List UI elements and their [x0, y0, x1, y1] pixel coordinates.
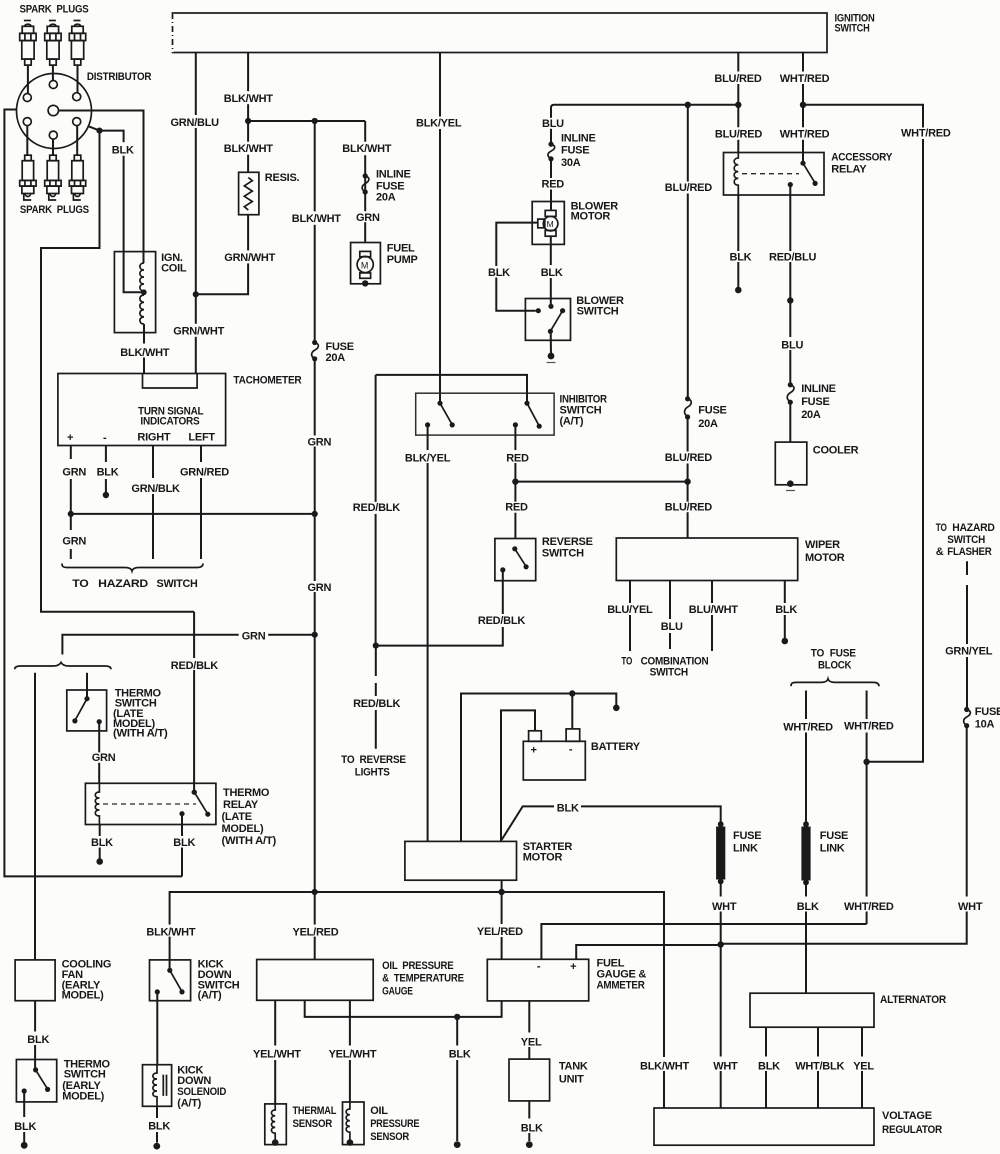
svg-text:REGULATOR: REGULATOR — [882, 1124, 942, 1136]
wire gauge common to fuel gauge (y=1017 link) — [305, 1000, 502, 1017]
wire battery + to starter motor — [501, 710, 535, 841]
wire inhibitor top feed from RED/BLK riser — [376, 375, 527, 403]
fuse FUSE 10A — [964, 706, 1000, 731]
wire YEL/RED bus junction to fuel gauge — [501, 892, 503, 959]
svg-text:+: + — [67, 432, 73, 444]
reverse switch contacts and arm — [512, 546, 517, 551]
wire BLK/WHT distribution bus y=121 — [248, 120, 365, 122]
svg-text:BLK: BLK — [148, 1121, 170, 1133]
tachometer input notch — [143, 374, 198, 389]
wire BLU/YEL wiper output — [629, 581, 631, 652]
svg-text:GAUGE: GAUGE — [382, 985, 413, 997]
accessory relay dashed actuation link — [742, 173, 799, 175]
thermo relay box — [85, 783, 216, 824]
wire fuel gauge + to WHT bus (bus y=945) — [576, 945, 718, 959]
spark plug P3 (top row) — [69, 21, 85, 66]
svg-text:+: + — [570, 961, 576, 973]
svg-text:WHT/RED: WHT/RED — [844, 901, 894, 913]
svg-text:BLK/WHT: BLK/WHT — [224, 93, 273, 105]
svg-text:BLK: BLK — [541, 267, 563, 279]
wire BLK solenoid to terminal — [156, 1106, 158, 1142]
wire WHT/BLK alternator to regulator — [817, 1027, 819, 1108]
fuel gauge & ammeter box — [487, 959, 588, 1001]
svg-text:YEL/RED: YEL/RED — [293, 927, 339, 939]
svg-text:PRESSURE: PRESSURE — [370, 1118, 419, 1130]
svg-text:BATTERY: BATTERY — [591, 741, 641, 753]
wire BLK (- output) — [105, 446, 107, 496]
svg-text:BLK/WHT: BLK/WHT — [224, 143, 273, 155]
svg-text:GRN: GRN — [92, 752, 116, 764]
svg-text:-: - — [103, 432, 107, 444]
wire RED inhibitor output down — [514, 425, 516, 539]
wire RED fuse to blower motor — [550, 159, 552, 211]
kick down switch box — [150, 960, 191, 1001]
wire BLK/YEL inhibitor output to starter motor — [427, 425, 429, 842]
ignition switch box — [173, 13, 828, 53]
reverse switch box — [495, 539, 536, 581]
fuse link (right of pair) — [716, 827, 725, 880]
node thermo relay switch feed dot — [192, 790, 197, 795]
svg-text:GRN/BLU: GRN/BLU — [171, 117, 220, 129]
svg-text:FUSE: FUSE — [326, 341, 354, 353]
svg-text:BLU/RED: BLU/RED — [714, 73, 761, 85]
svg-text:BLK/WHT: BLK/WHT — [146, 927, 195, 939]
node starter bus junction — [498, 889, 504, 895]
node BLK junction at distributor — [96, 128, 102, 134]
svg-text:SWITCH: SWITCH — [64, 1069, 106, 1081]
svg-text:TO: TO — [72, 578, 89, 590]
wire blower switch to ground terminal — [550, 331, 552, 356]
fuse INLINE FUSE 20A (fuel pump) — [362, 169, 410, 204]
svg-text:BLK: BLK — [521, 1123, 543, 1135]
svg-text:10A: 10A — [975, 719, 995, 731]
svg-text:FUSE: FUSE — [820, 830, 848, 842]
node BLU/RED tap junction x=688 — [685, 102, 691, 108]
node GRN bus junction y=513.9 — [312, 511, 318, 517]
svg-text:LEFT: LEFT — [188, 431, 215, 443]
thermo switch (late model) box — [67, 690, 107, 731]
svg-text:BLK: BLK — [91, 837, 113, 849]
wire BLK fuse link to alternator — [805, 884, 807, 993]
svg-text:(LATE: (LATE — [222, 811, 252, 823]
kick down switch contacts and arm — [167, 968, 172, 973]
thermo switch (early model) box — [16, 1060, 56, 1102]
fuse INLINE FUSE 20A (cooler) — [787, 382, 836, 421]
accessory relay coil — [734, 153, 738, 196]
thermo relay actuation dashed link — [103, 803, 196, 805]
wire BLU feed horizontal y=105 — [551, 105, 738, 143]
svg-text:RED/BLK: RED/BLK — [353, 698, 400, 710]
wire WHT/RED brace to lower junction — [866, 691, 868, 762]
thermal sensor box — [265, 1104, 287, 1145]
svg-text:SPARK PLUGS: SPARK PLUGS — [20, 4, 89, 16]
wire GRN/BLU ignition to tachometer (via GRN/WHT junction) — [195, 53, 197, 374]
wire BLK thermo switch (early) to terminal — [23, 1091, 25, 1142]
svg-text:BLK/WHT: BLK/WHT — [292, 213, 341, 225]
ignition coil box — [114, 252, 155, 333]
svg-text:MOTOR: MOTOR — [523, 852, 563, 864]
svg-text:COOLER: COOLER — [813, 444, 859, 456]
node junction at x=248 — [245, 118, 251, 124]
svg-text:FUSE: FUSE — [733, 830, 761, 842]
oil pressure sensor winding — [346, 1102, 350, 1141]
wire BLK blower motor bottom to switch — [550, 236, 552, 306]
node cooler ground terminal — [787, 480, 794, 487]
inhibitor switch right contacts and arm — [524, 401, 529, 406]
brace TO FUSE BLOCK — [791, 679, 879, 686]
svg-text:GRN: GRN — [62, 536, 86, 548]
wire coil bottom BLK/WHT to tachometer — [143, 324, 145, 374]
fuel pump box — [351, 243, 381, 284]
svg-text:BLK: BLK — [557, 803, 579, 815]
node BLU/RED junction — [684, 478, 690, 484]
svg-text:AMMETER: AMMETER — [597, 980, 645, 992]
oil pressure sensor box — [343, 1102, 365, 1145]
svg-text:WHT/RED: WHT/RED — [844, 721, 894, 733]
svg-text:WHT: WHT — [958, 901, 983, 913]
spark plug P4 (bottom row) — [20, 155, 36, 200]
svg-text:GRN: GRN — [62, 467, 86, 479]
wire brace to thermo switch (late) — [86, 673, 88, 699]
battery + terminal post — [529, 731, 542, 742]
wire battery - feed from starter top bus — [461, 694, 616, 842]
svg-text:SENSOR: SENSOR — [293, 1118, 333, 1130]
svg-text:BLK: BLK — [488, 267, 510, 279]
node RED/BLK junction y=645.6 — [373, 643, 379, 649]
wire BLK/WHT branch to inline fuse / fuel pump — [364, 121, 366, 243]
svg-text:PUMP: PUMP — [387, 254, 418, 266]
wire GRN/BLK (RIGHT output) to hazard brace — [152, 446, 154, 560]
wire BLK wiper output — [784, 581, 786, 639]
svg-text:GRN/RED: GRN/RED — [180, 467, 229, 479]
svg-text:BLU: BLU — [661, 621, 683, 633]
svg-text:BLK: BLK — [97, 467, 119, 479]
svg-text:VOLTAGE: VOLTAGE — [882, 1110, 932, 1122]
svg-text:20A: 20A — [801, 409, 821, 421]
fuse FUSE 20A (wiper) — [685, 396, 727, 430]
svg-text:FUSE: FUSE — [830, 648, 856, 660]
resistor RESIS. zigzag — [244, 178, 252, 210]
svg-text:MODEL): MODEL) — [222, 823, 264, 835]
wire WHT/RED ignition down to relay — [802, 53, 804, 164]
cooling fan box — [15, 960, 55, 1001]
svg-text:WHT/RED: WHT/RED — [901, 128, 951, 140]
svg-text:FUSE: FUSE — [698, 405, 726, 417]
svg-text:WHT/BLK: WHT/BLK — [795, 1061, 844, 1073]
svg-text:MODEL): MODEL) — [62, 1090, 104, 1102]
wire BLK starter to fuse link (with diagonal) — [502, 806, 721, 840]
svg-text:30A: 30A — [561, 157, 581, 169]
svg-text:FLASHER: FLASHER — [947, 546, 992, 558]
svg-text:DISTRIBUTOR: DISTRIBUTOR — [87, 71, 152, 83]
svg-text:WHT: WHT — [713, 1061, 738, 1073]
node WHT bus junction — [718, 941, 724, 947]
wire BLK thermo relay switch to far-left ground run — [181, 814, 183, 877]
svg-text:BLK: BLK — [14, 1121, 36, 1133]
wiper motor box — [616, 538, 797, 581]
svg-text:GRN/BLK: GRN/BLK — [131, 483, 180, 495]
spark plug P5 (bottom row) — [45, 155, 61, 200]
svg-text:BLU/RED: BLU/RED — [715, 129, 762, 141]
svg-text:REVERSE: REVERSE — [542, 536, 593, 548]
svg-text:HAZARD: HAZARD — [952, 522, 995, 534]
svg-text:M: M — [361, 260, 368, 270]
svg-text:GRN/WHT: GRN/WHT — [224, 252, 275, 264]
svg-text:RED: RED — [542, 178, 565, 190]
svg-text:WHT/RED: WHT/RED — [780, 129, 830, 141]
svg-text:SPARK PLUGS: SPARK PLUGS — [20, 204, 89, 216]
wire blower motor left lead to blower switch — [496, 223, 538, 311]
svg-text:RED/BLU: RED/BLU — [769, 252, 816, 264]
wire RED/BLU relay switch down to cooler — [789, 185, 791, 383]
wire RED/BLK (ground-run branch) down to thermo relay — [193, 612, 195, 792]
svg-text:INDICATORS: INDICATORS — [140, 416, 199, 428]
svg-text:RED: RED — [506, 452, 529, 464]
node oil pressure sensor ground dot — [347, 1139, 354, 1146]
svg-text:BLU/RED: BLU/RED — [665, 452, 712, 464]
blower motor box — [532, 202, 564, 245]
wire WHT/RED junction down to fuel-gauge bus corner — [866, 762, 868, 924]
svg-text:20A: 20A — [376, 192, 396, 204]
resistor RESIS. box — [239, 172, 259, 214]
node BLK terminal dot — [103, 492, 109, 498]
svg-text:LINK: LINK — [820, 843, 845, 855]
cooler box — [775, 442, 807, 485]
wire distributor to P6 — [76, 126, 78, 156]
wire battery - lead — [571, 694, 573, 729]
wire YEL/WHT gauge to oil pressure sensor — [349, 1000, 351, 1102]
starter motor box — [405, 841, 517, 880]
accessory relay box — [724, 153, 825, 196]
wire P1 to distributor — [27, 65, 29, 93]
fuse FUSE 20A (in-line symbol) — [312, 340, 354, 364]
node BLK terminal dot — [782, 638, 789, 645]
kick down solenoid coil and core — [153, 1065, 157, 1107]
node RED junction — [512, 478, 518, 484]
wire YEL/WHT gauge to thermal sensor — [274, 1000, 276, 1104]
svg-text:FUSE: FUSE — [376, 180, 404, 192]
svg-text:-: - — [569, 744, 573, 756]
wire GRN thermo switch to thermo relay coil — [98, 722, 100, 784]
svg-text:RED: RED — [505, 501, 528, 513]
node RED/BLU connector dot — [787, 297, 793, 303]
svg-text:INLINE: INLINE — [561, 133, 596, 145]
tachometer box — [58, 374, 226, 446]
node fuse link top dot — [718, 821, 724, 827]
thermo switch (early) contacts and arm — [33, 1067, 38, 1072]
svg-text:RED/BLK: RED/BLK — [171, 660, 218, 672]
svg-text:BLK/WHT: BLK/WHT — [120, 347, 169, 359]
wire WHT/RED brace to left fuse link — [805, 691, 807, 823]
wire GRN (+ output) to hazard brace — [70, 446, 72, 560]
svg-text:GRN: GRN — [308, 437, 332, 449]
thermo switch (late) contacts and arm — [84, 696, 89, 701]
battery - terminal post — [566, 729, 580, 741]
wire BLK node to coil tap and down-left long run to y=612 — [100, 131, 142, 293]
accessory relay switch contacts and arm — [800, 161, 805, 166]
wire fuse to cooler — [789, 402, 791, 442]
wire GRN/YEL hazard flasher feed — [966, 561, 968, 708]
svg-text:BLU: BLU — [781, 339, 803, 351]
fuel pump motor M — [357, 251, 373, 278]
svg-text:BLU/WHT: BLU/WHT — [689, 604, 738, 616]
svg-text:HAZARD: HAZARD — [98, 578, 148, 590]
node junction at x=314.7 — [312, 118, 318, 124]
svg-text:YEL/WHT: YEL/WHT — [253, 1048, 301, 1060]
wire BLK junction to terminal — [456, 1017, 458, 1141]
node BLK junction — [454, 1014, 460, 1020]
svg-text:YEL/WHT: YEL/WHT — [329, 1048, 377, 1060]
wire RED/BLK junction to TO REVERSE LIGHTS — [375, 646, 377, 749]
svg-text:FUSE: FUSE — [801, 396, 829, 408]
inhibitor switch left contacts and arm — [437, 401, 442, 406]
blower switch box — [525, 299, 570, 341]
svg-text:GRN: GRN — [308, 582, 332, 594]
wire BLU/RED ignition down — [737, 53, 739, 154]
svg-text:BLK: BLK — [797, 901, 819, 913]
svg-text:BLU/RED: BLU/RED — [665, 182, 712, 194]
kick down solenoid box — [143, 1065, 172, 1107]
svg-text:YEL: YEL — [521, 1036, 542, 1048]
wire fuel gauge - to WHT/RED riser (bus y=924) — [541, 924, 866, 959]
node BLK terminal dot — [153, 1143, 160, 1150]
svg-text:20A: 20A — [698, 418, 718, 430]
svg-text:WIPER: WIPER — [805, 539, 840, 551]
node BLK terminal dot — [735, 287, 742, 294]
blower switch contacts and arm — [536, 308, 541, 313]
svg-text:FUSE: FUSE — [975, 706, 1000, 718]
svg-text:& TEMPERATURE: & TEMPERATURE — [382, 972, 464, 984]
svg-text:(WITH A/T): (WITH A/T) — [113, 728, 168, 740]
node thermal sensor ground dot — [272, 1139, 279, 1146]
distributor terminal circles — [23, 81, 80, 140]
svg-text:RIGHT: RIGHT — [137, 431, 171, 443]
svg-text:INLINE: INLINE — [801, 383, 836, 395]
svg-text:MOTOR: MOTOR — [805, 552, 845, 564]
tank unit box — [509, 1059, 550, 1101]
node BLK terminal dot — [21, 1142, 28, 1149]
blower motor M — [538, 210, 558, 236]
wire GRN horizontal y=634.7 to left brace — [62, 635, 314, 655]
node GRN/WHT junction — [193, 291, 199, 297]
svg-text:+: + — [531, 745, 537, 757]
wire YEL fuel gauge to tank unit — [528, 1001, 530, 1059]
svg-text:BLK/WHT: BLK/WHT — [640, 1061, 689, 1073]
svg-text:BLK: BLK — [27, 1034, 49, 1046]
wire distributor to P4 — [26, 126, 28, 156]
svg-text:LINK: LINK — [733, 843, 758, 855]
svg-text:BLU/YEL: BLU/YEL — [607, 604, 653, 616]
node BLK terminal dot (end of - branch) — [613, 705, 620, 712]
wire WHT/RED branch right and long right-edge drop — [803, 105, 923, 762]
svg-text:FUSE: FUSE — [561, 145, 589, 157]
node BLK terminal dot — [454, 1141, 461, 1148]
wire YEL alternator to regulator — [861, 1027, 863, 1108]
svg-text:SOLENOID: SOLENOID — [177, 1086, 226, 1098]
svg-text:BLK: BLK — [173, 837, 195, 849]
wire BLK/YEL ignition to inhibitor switch — [439, 53, 441, 404]
svg-text:INLINE: INLINE — [376, 169, 411, 181]
wire BLU wiper output — [669, 581, 671, 650]
wire WHT fuse link to bus junction and voltage regulator — [720, 883, 722, 1108]
svg-text:M: M — [547, 219, 554, 229]
node GRN junction y=634.7 — [312, 632, 318, 638]
svg-text:SWITCH: SWITCH — [835, 23, 870, 35]
wire WHT fuse 10A to bottom bus — [721, 726, 967, 944]
svg-text:OIL PRESSURE: OIL PRESSURE — [382, 960, 453, 972]
svg-text:WHT/RED: WHT/RED — [780, 73, 830, 85]
wire P3 to distributor — [77, 65, 79, 93]
wire main bus y=892 (kick-down riser to regulator riser) — [170, 892, 664, 1108]
inhibitor switch box — [416, 393, 554, 435]
svg-text:BLK/WHT: BLK/WHT — [342, 143, 391, 155]
svg-text:YEL: YEL — [853, 1061, 874, 1073]
svg-text:BLK: BLK — [730, 252, 752, 264]
thermo relay coil — [95, 783, 99, 824]
node WHT/RED junction — [800, 102, 806, 108]
ignition coil winding — [140, 263, 144, 291]
svg-text:FUEL: FUEL — [387, 242, 415, 254]
svg-text:(A/T): (A/T) — [198, 989, 222, 1001]
wire GRN long vertical (fuse to bus junctions, becomes YEL/RED) — [314, 359, 316, 960]
svg-text:GAUGE &: GAUGE & — [597, 969, 647, 981]
node BLU/RED junction — [735, 102, 741, 108]
svg-text:TO: TO — [621, 656, 632, 668]
svg-text:TO REVERSE: TO REVERSE — [341, 754, 406, 766]
node BLK terminal dot — [96, 858, 103, 865]
svg-text:ACCESSORY: ACCESSORY — [831, 152, 893, 164]
node WHT/RED junction — [863, 759, 869, 765]
svg-text:SWITCH: SWITCH — [157, 578, 198, 590]
wire GRN bus (turn signals to GRN vertical) — [71, 513, 315, 515]
svg-text:BLK: BLK — [775, 604, 797, 616]
wire distributor center to ignition coil top — [58, 111, 143, 264]
wire BLK cooling fan to thermo switch (early) — [34, 1001, 36, 1070]
svg-text:SWITCH: SWITCH — [577, 306, 619, 318]
svg-text:GRN: GRN — [242, 631, 266, 643]
svg-text:THERMAL: THERMAL — [293, 1105, 337, 1117]
svg-text:RELAY: RELAY — [223, 799, 259, 811]
svg-text:TO: TO — [936, 522, 947, 534]
thermo relay switch contacts and arm — [192, 790, 197, 795]
brace thermo group — [15, 662, 111, 669]
svg-text:BLK/YEL: BLK/YEL — [416, 117, 462, 129]
svg-text:20A: 20A — [326, 352, 346, 364]
wire BLK thermo relay coil to terminal — [99, 825, 101, 861]
svg-text:GRN/YEL: GRN/YEL — [945, 646, 993, 658]
svg-text:BLK: BLK — [449, 1048, 471, 1060]
svg-text:(A/T): (A/T) — [177, 1097, 201, 1109]
fuse INLINE FUSE 30A — [548, 133, 596, 169]
svg-text:THERMO: THERMO — [223, 787, 270, 799]
wire BLU/RED (x=688) junction to wiper motor — [687, 105, 689, 538]
svg-text:UNIT: UNIT — [559, 1073, 584, 1085]
svg-text:OIL: OIL — [370, 1105, 388, 1117]
svg-text:YEL/RED: YEL/RED — [477, 926, 523, 938]
svg-text:WHT/RED: WHT/RED — [783, 722, 833, 734]
svg-text:TANK: TANK — [559, 1061, 588, 1073]
svg-text:RESIS.: RESIS. — [265, 172, 300, 184]
wire resistor bottom to GRN/WHT junction — [198, 215, 248, 295]
fuse link (left of pair, feeds alternator) — [803, 821, 809, 827]
wire distributor right port to BLK node — [88, 126, 99, 130]
wire kick down switch to solenoid — [156, 992, 158, 1065]
wire brace to cooling fan (long left vertical) — [34, 673, 36, 960]
wire RED/BLK reverse switch to junction — [378, 570, 503, 646]
svg-text:BLK/YEL: BLK/YEL — [405, 452, 451, 464]
wire RED/BLK riser down to reverse-lights junction — [375, 375, 377, 646]
svg-text:RED/BLK: RED/BLK — [478, 615, 525, 627]
